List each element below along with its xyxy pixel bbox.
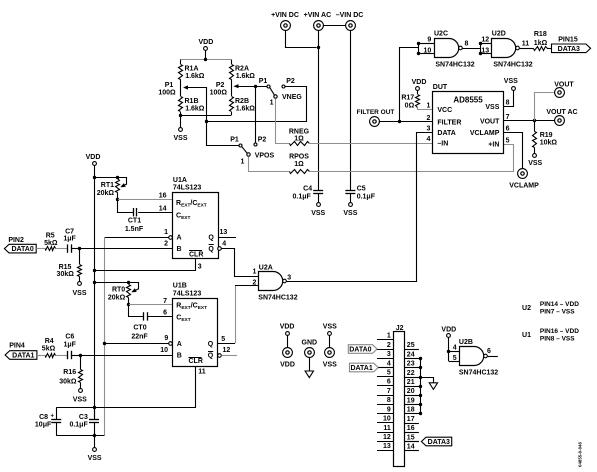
svg-text:6: 6	[487, 348, 491, 355]
power VSS C4	[311, 203, 325, 218]
J2 right pin numbers	[407, 342, 415, 450]
resistor R2B	[230, 97, 256, 116]
nand gate U2A	[258, 264, 297, 301]
svg-text:3: 3	[287, 275, 291, 282]
node divider VDD	[204, 58, 207, 61]
svg-text:Q: Q	[208, 234, 214, 241]
wire U2D input tie	[481, 44, 492, 54]
J2 ground tie	[419, 357, 422, 415]
node C3 bottom	[93, 434, 96, 437]
svg-text:VSS: VSS	[485, 104, 499, 111]
svg-text:P2: P2	[258, 137, 267, 144]
svg-text:RPOS: RPOS	[289, 154, 309, 161]
capacitor CT0	[129, 305, 173, 341]
svg-text:+VIN AC: +VIN AC	[304, 12, 332, 19]
node RT0 top	[127, 281, 130, 284]
svg-text:20: 20	[407, 388, 415, 395]
pin 9 label	[427, 37, 431, 44]
svg-text:04855-0-046: 04855-0-046	[578, 442, 583, 467]
svg-text:VSS: VSS	[311, 210, 325, 217]
wire A pin1	[104, 229, 168, 238]
svg-text:5: 5	[221, 336, 225, 343]
U1A A label	[177, 234, 182, 241]
svg-text:100Ω: 100Ω	[158, 89, 176, 96]
svg-text:11: 11	[198, 369, 206, 376]
one-shot U1A box	[173, 177, 219, 259]
resistor R15	[57, 248, 82, 281]
svg-text:VDD: VDD	[86, 154, 101, 161]
svg-text:SN74HC132: SN74HC132	[459, 369, 498, 376]
resistor R4	[42, 338, 56, 357]
svg-text:10: 10	[383, 416, 391, 423]
label VNEG	[282, 94, 302, 101]
note U2 power	[522, 301, 579, 316]
svg-text:30kΩ: 30kΩ	[59, 379, 77, 386]
wire A rail gray	[104, 237, 106, 436]
tag DATA3 J2	[421, 437, 451, 446]
U1B REXT/CEXT label	[176, 302, 207, 311]
svg-text:VDD: VDD	[199, 39, 214, 46]
svg-text:0.1μF: 0.1μF	[357, 193, 376, 200]
svg-text:VSS: VSS	[73, 396, 87, 403]
svg-text:VSS: VSS	[72, 290, 86, 297]
svg-text:1Ω: 1Ω	[294, 161, 304, 168]
U1A Qbar label	[208, 245, 214, 254]
svg-text:PIN7 – VSS: PIN7 – VSS	[540, 308, 575, 315]
svg-text:DATA1: DATA1	[350, 365, 372, 372]
svg-text:VPOS: VPOS	[255, 152, 275, 159]
wire Q pin13	[218, 229, 236, 238]
wire R19 to VSS	[534, 148, 536, 154]
resistor R2A	[230, 60, 256, 80]
svg-text:R4: R4	[45, 338, 54, 345]
power VSS C5	[343, 203, 357, 218]
tag DATA0 J2	[348, 345, 393, 354]
node P2 net	[254, 85, 257, 88]
svg-text:+VIN DC: +VIN DC	[271, 12, 299, 19]
wire RNEG to -IN	[309, 143, 432, 145]
switch VNEG P1 terminal	[259, 78, 270, 88]
tag DATA1 J2	[350, 363, 394, 372]
wire Q pin5 riser	[235, 286, 237, 344]
svg-text:VSS: VSS	[528, 160, 542, 167]
power VDD R17	[412, 79, 427, 91]
node U2C pin10	[417, 52, 420, 55]
svg-text:VSS: VSS	[504, 78, 518, 85]
svg-text:19: 19	[407, 397, 415, 404]
pin 12 label	[481, 37, 489, 44]
wire VNEG to RNEG	[276, 99, 290, 144]
pin 5 label U2B	[453, 355, 457, 362]
svg-text:100Ω: 100Ω	[210, 89, 228, 96]
nand gate U2B	[459, 339, 498, 376]
power VDD U2B	[441, 326, 456, 337]
node RT1 bottom	[116, 198, 119, 201]
one-shot U1B box	[173, 283, 218, 367]
wire divider bottom rail	[181, 115, 232, 117]
wire divider top rail	[181, 59, 232, 61]
wire VOUT AC riser	[535, 93, 555, 121]
pin VCLAMP	[470, 125, 510, 136]
resistor R5	[44, 233, 58, 251]
U1B A label	[177, 341, 182, 348]
pin 4 label U2B	[453, 344, 457, 351]
switch VNEG common	[270, 87, 278, 106]
J2 right pin lines	[404, 350, 420, 451]
wire J2 to ground	[421, 378, 434, 383]
U1B CEXT label	[176, 315, 190, 324]
svg-text:U2C: U2C	[434, 30, 448, 37]
svg-text:13: 13	[383, 443, 391, 450]
svg-text:23: 23	[407, 361, 415, 368]
connector +VIN DC	[271, 12, 299, 31]
svg-text:PIN16 – VDD: PIN16 – VDD	[540, 328, 579, 335]
svg-text:U1: U1	[522, 332, 531, 339]
svg-text:0Ω: 0Ω	[405, 103, 415, 110]
wire divider to VSS	[180, 115, 182, 127]
svg-text:CLR: CLR	[189, 358, 203, 365]
svg-text:C5: C5	[357, 186, 366, 193]
nand gate U2D	[492, 30, 533, 68]
wire A pin9	[104, 335, 168, 344]
wire VDD to U2B	[449, 338, 460, 362]
resistor R18	[534, 31, 548, 51]
connector -VIN DC	[336, 12, 364, 31]
wire U2D out	[520, 48, 534, 50]
wire cap top rail	[56, 407, 94, 409]
svg-text:R1B: R1B	[185, 98, 199, 105]
label PIN15	[558, 36, 578, 43]
svg-text:CT0: CT0	[133, 324, 146, 331]
tag DATA3 out	[552, 44, 591, 53]
svg-text:PIN8 – VSS: PIN8 – VSS	[540, 336, 575, 343]
power VSS pin8	[504, 78, 518, 90]
svg-text:25: 25	[407, 342, 415, 349]
resistor R17	[401, 90, 419, 109]
svg-text:9: 9	[387, 406, 391, 413]
svg-text:1.6kΩ: 1.6kΩ	[185, 73, 205, 80]
svg-text:C3: C3	[79, 414, 88, 421]
svg-text:10kΩ: 10kΩ	[540, 139, 558, 146]
switch VNEG P2 terminal	[282, 78, 295, 88]
node RT1 top	[116, 176, 119, 179]
svg-text:P2: P2	[286, 78, 295, 85]
wire cap bottom rail	[56, 435, 104, 437]
wire -VIN DC down to C5	[350, 31, 352, 191]
node U2D pin13	[479, 52, 482, 55]
svg-text:24: 24	[407, 351, 415, 358]
svg-text:12: 12	[481, 37, 489, 44]
svg-text:30kΩ: 30kΩ	[57, 271, 75, 278]
svg-text:U1B: U1B	[173, 283, 187, 290]
svg-text:14: 14	[407, 444, 415, 451]
wire R5 to C7	[55, 248, 67, 250]
svg-text:P2: P2	[216, 82, 225, 89]
power VSS R16	[73, 389, 87, 404]
svg-text:20kΩ: 20kΩ	[108, 294, 126, 301]
wire R17 to VCC	[418, 108, 433, 110]
wire C6 to B	[71, 355, 80, 357]
resistor R1A	[179, 60, 205, 80]
svg-text:1: 1	[426, 103, 430, 110]
wire U2A pin2 in	[235, 279, 259, 286]
resistor R19	[533, 121, 558, 148]
pin 7 label	[163, 298, 167, 305]
svg-text:10: 10	[424, 47, 432, 54]
wire C7 to B	[71, 248, 80, 250]
pin DATA	[426, 125, 455, 137]
resistor R1B	[179, 97, 205, 116]
svg-text:CLR: CLR	[189, 252, 203, 259]
svg-text:7: 7	[506, 114, 510, 121]
svg-text:1kΩ: 1kΩ	[534, 40, 548, 47]
svg-text:R16: R16	[63, 369, 76, 376]
svg-text:A: A	[177, 341, 182, 348]
svg-text:2: 2	[164, 240, 168, 247]
svg-text:–VIN DC: –VIN DC	[336, 12, 364, 19]
pin 9 bubble	[169, 342, 173, 346]
svg-text:3: 3	[198, 264, 202, 271]
svg-text:1Ω: 1Ω	[294, 136, 304, 143]
svg-text:VOUT AC: VOUT AC	[546, 109, 577, 116]
node U2B tie	[447, 350, 450, 353]
pin 3 label U2A	[287, 275, 291, 282]
node RT1 branch	[93, 176, 96, 179]
capacitor C5	[345, 186, 375, 201]
power VDD post	[280, 324, 295, 369]
switch VPOS P1 terminal	[230, 137, 242, 147]
svg-text:–IN: –IN	[437, 140, 448, 147]
svg-text:5: 5	[453, 355, 457, 362]
svg-text:8: 8	[465, 41, 469, 48]
pin 10 label	[424, 47, 432, 54]
op-amp U1 DUT AD8555 box	[433, 84, 504, 154]
wire +VIN AC to -VIN DC	[323, 25, 345, 27]
node VOUT	[533, 119, 536, 122]
wire DATA net	[286, 133, 433, 282]
svg-text:R17: R17	[401, 95, 414, 102]
wire DATA0 to R5	[36, 248, 45, 250]
svg-text:8: 8	[387, 397, 391, 404]
svg-text:4: 4	[426, 136, 430, 143]
resistor RPOS	[289, 154, 309, 174]
U1B B label	[177, 353, 182, 360]
pin 4 bubble	[218, 247, 222, 251]
switch VPOS P2 terminal	[254, 137, 266, 146]
wire VCLAMP pin6	[504, 133, 523, 169]
capacitor C4	[293, 186, 324, 201]
svg-text:6: 6	[163, 310, 167, 317]
power VDD rail	[86, 154, 101, 166]
nand gate U2C	[434, 30, 475, 68]
U1B Qbar label	[208, 352, 214, 360]
pin 6 label	[163, 310, 167, 317]
wire FILTER node up to U2C inputs	[400, 48, 419, 122]
power VSS R15	[72, 282, 86, 298]
svg-text:21: 21	[407, 379, 415, 386]
svg-text:B: B	[177, 246, 182, 253]
node FILTER junction	[398, 120, 401, 123]
node U2D pin12	[479, 42, 482, 45]
label PIN2	[8, 237, 24, 244]
svg-text:C4: C4	[303, 186, 312, 193]
connector J2 box	[394, 325, 405, 466]
resistor R16	[59, 355, 82, 389]
power VDD divider	[199, 39, 214, 50]
svg-text:R1A: R1A	[185, 66, 199, 73]
svg-text:VOUT: VOUT	[480, 118, 500, 125]
connector +VIN AC	[304, 12, 332, 31]
wire Q pin5	[218, 336, 235, 344]
svg-text:7: 7	[163, 298, 167, 305]
node CLR1 branch	[93, 269, 96, 272]
wire CLR pin11	[95, 367, 206, 408]
svg-text:P1: P1	[259, 78, 268, 85]
svg-text:11: 11	[383, 425, 391, 432]
svg-text:11: 11	[522, 41, 530, 48]
U1A Q label	[208, 234, 214, 241]
node +VIN junction	[317, 46, 320, 49]
svg-text:DUT: DUT	[433, 84, 448, 91]
label PIN4	[9, 342, 25, 349]
pin 13 label	[481, 47, 489, 54]
svg-text:5kΩ: 5kΩ	[44, 240, 58, 247]
U1B Q label	[208, 341, 214, 348]
svg-text:16: 16	[159, 193, 167, 200]
svg-text:1: 1	[241, 159, 245, 166]
svg-text:PIN14 – VDD: PIN14 – VDD	[540, 301, 579, 308]
node U2C pin9	[417, 42, 420, 45]
U1B CLR label	[189, 358, 203, 366]
svg-text:RT1: RT1	[101, 182, 114, 189]
svg-text:FILTER: FILTER	[437, 119, 461, 126]
svg-text:4: 4	[387, 360, 391, 367]
switch VPOS common	[241, 146, 251, 165]
node C7 junction	[78, 247, 81, 250]
wire C4 to VSS	[318, 194, 320, 203]
svg-text:VSS: VSS	[323, 361, 337, 368]
svg-text:15: 15	[407, 434, 415, 441]
svg-text:74LS123: 74LS123	[173, 185, 202, 192]
svg-text:7: 7	[387, 388, 391, 395]
power VSS divider	[173, 128, 187, 143]
svg-text:VSS: VSS	[88, 455, 102, 462]
svg-text:U2: U2	[522, 305, 531, 312]
svg-text:RNEG: RNEG	[289, 128, 310, 135]
svg-text:0.1μF: 0.1μF	[69, 422, 88, 429]
svg-text:Q: Q	[208, 353, 214, 360]
power VSS post	[323, 324, 337, 369]
wire P1 net to VNEG P2	[207, 87, 307, 122]
svg-text:VCLAMP: VCLAMP	[470, 130, 500, 137]
pin FILTER	[426, 115, 461, 127]
svg-text:R2A: R2A	[235, 66, 249, 73]
pin VOUT	[480, 114, 510, 125]
svg-text:R5: R5	[46, 233, 55, 240]
svg-text:VCC: VCC	[437, 107, 452, 114]
svg-text:10μF: 10μF	[35, 422, 52, 429]
svg-text:SN74HC132: SN74HC132	[435, 61, 474, 68]
svg-text:6: 6	[387, 379, 391, 386]
potentiometer RT1	[97, 178, 127, 200]
U1A B label	[177, 246, 182, 253]
pin VCC	[426, 103, 452, 115]
svg-text:2: 2	[426, 115, 430, 122]
svg-text:VOUT: VOUT	[554, 81, 574, 88]
svg-text:P1: P1	[230, 137, 239, 144]
wire FILTER OUT to pin2	[379, 121, 432, 123]
wire Qbar pin12	[221, 347, 237, 356]
svg-text:1: 1	[387, 333, 391, 340]
wire B pin2	[80, 240, 173, 248]
node P1 net	[205, 120, 208, 123]
svg-text:DATA0: DATA0	[11, 246, 33, 253]
J2 left pin lines	[377, 340, 393, 451]
svg-text:VDD: VDD	[280, 361, 295, 368]
capacitor C8	[35, 408, 61, 436]
wire VDD rail	[94, 165, 96, 418]
svg-text:VSS: VSS	[173, 135, 187, 142]
wire VSS pin8	[504, 91, 514, 107]
pin -IN	[426, 136, 448, 148]
svg-text:17: 17	[407, 416, 415, 423]
svg-text:5: 5	[387, 370, 391, 377]
potentiometer RT0	[108, 283, 139, 305]
svg-text:14: 14	[159, 205, 167, 212]
node C-rail branch	[93, 406, 96, 409]
svg-text:C7: C7	[65, 228, 74, 235]
svg-text:2: 2	[252, 279, 256, 286]
figure number	[578, 442, 583, 467]
svg-text:1.6kΩ: 1.6kΩ	[185, 105, 205, 112]
svg-text:U2B: U2B	[459, 339, 473, 346]
pin 1 bubble	[169, 236, 173, 240]
svg-text:1: 1	[164, 229, 168, 236]
wire Qbar pin4	[222, 240, 259, 276]
svg-text:1μF: 1μF	[63, 341, 76, 348]
svg-text:16: 16	[407, 425, 415, 432]
wire R2A-R2B	[231, 79, 233, 96]
wire CLR pin3	[95, 259, 202, 271]
svg-text:18: 18	[407, 407, 415, 414]
svg-text:1.5nF: 1.5nF	[125, 226, 144, 233]
wire +VIN AC down to C4	[318, 31, 320, 191]
pin 14 label	[159, 205, 167, 212]
svg-text:U1A: U1A	[173, 177, 187, 184]
connector VOUT	[554, 81, 574, 97]
power VSS bottom	[88, 448, 102, 462]
svg-text:12: 12	[223, 347, 231, 354]
svg-text:C8: C8	[39, 414, 48, 421]
svg-text:DATA3: DATA3	[428, 439, 450, 446]
svg-text:1.6kΩ: 1.6kΩ	[236, 105, 256, 112]
wire RT0 to pin7	[129, 304, 173, 306]
wire R1A-R1B	[180, 79, 182, 96]
wire P2 net to VPOS P2	[255, 86, 257, 142]
svg-text:A: A	[177, 234, 182, 241]
svg-text:RT0: RT0	[112, 287, 125, 294]
wire C5 to VSS	[350, 194, 352, 203]
wire R18 to DATA3	[547, 48, 552, 50]
wire U2C input tie	[418, 44, 434, 54]
wire VPOS to RPOS	[249, 157, 290, 172]
svg-text:R2B: R2B	[235, 98, 249, 105]
svg-text:P1: P1	[165, 82, 174, 89]
wire U2A pin1 in	[234, 268, 258, 276]
svg-text:22: 22	[407, 370, 415, 377]
svg-text:J2: J2	[396, 325, 404, 332]
wire RPOS to +IN	[310, 145, 514, 172]
